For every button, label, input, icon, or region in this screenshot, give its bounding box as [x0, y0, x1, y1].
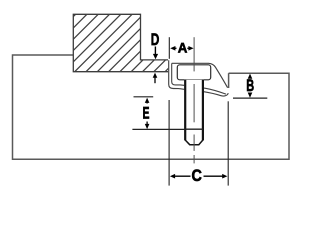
dimension E lower extension line [132, 128, 185, 130]
step line across shank [185, 128, 203, 130]
dimension B lower arrow [248, 93, 253, 98]
svg-text:A: A [178, 40, 188, 56]
dimension B upper arrow [248, 74, 253, 79]
dimension E upper extension line [134, 96, 154, 98]
svg-text:C: C [192, 166, 202, 185]
clip inner-left edge and inner bottom arm [172, 63, 226, 94]
svg-text:E: E [143, 104, 150, 123]
svg-text:D: D [151, 30, 160, 49]
dimension A extension line left [168, 37, 170, 59]
stud head [177, 65, 210, 80]
dimension A right arrow [188, 46, 193, 51]
centerline [193, 37, 195, 163]
clip outer-left edge and bottom arm [169, 60, 229, 96]
dimension E upper arrow [146, 103, 148, 104]
fixture shelf left edge [228, 73, 230, 88]
shank chamfered tip [185, 140, 203, 145]
hatching [17, 12, 225, 73]
dimension E lower arrow [146, 122, 148, 125]
dimension C extension line left [168, 100, 170, 186]
dimension C line left [174, 175, 191, 177]
dimension A left arrow [170, 46, 175, 51]
svg-text:B: B [246, 76, 254, 95]
dimension C extension line right [227, 101, 229, 185]
shank left wall [184, 80, 186, 141]
shank right wall [202, 80, 204, 141]
dimension B lower extension line [233, 97, 267, 99]
clip outer top edge and right shoulder curve [172, 63, 228, 87]
dimension D upper arrow [154, 47, 156, 56]
panel section outline (thick boss + thin flange) [73, 14, 168, 71]
stud shank (white body occludes clip lines) [184, 80, 204, 146]
fixture outline (open rectangle) [13, 55, 290, 159]
dimension D lower arrow [154, 77, 156, 83]
dimension C line right [204, 175, 224, 177]
